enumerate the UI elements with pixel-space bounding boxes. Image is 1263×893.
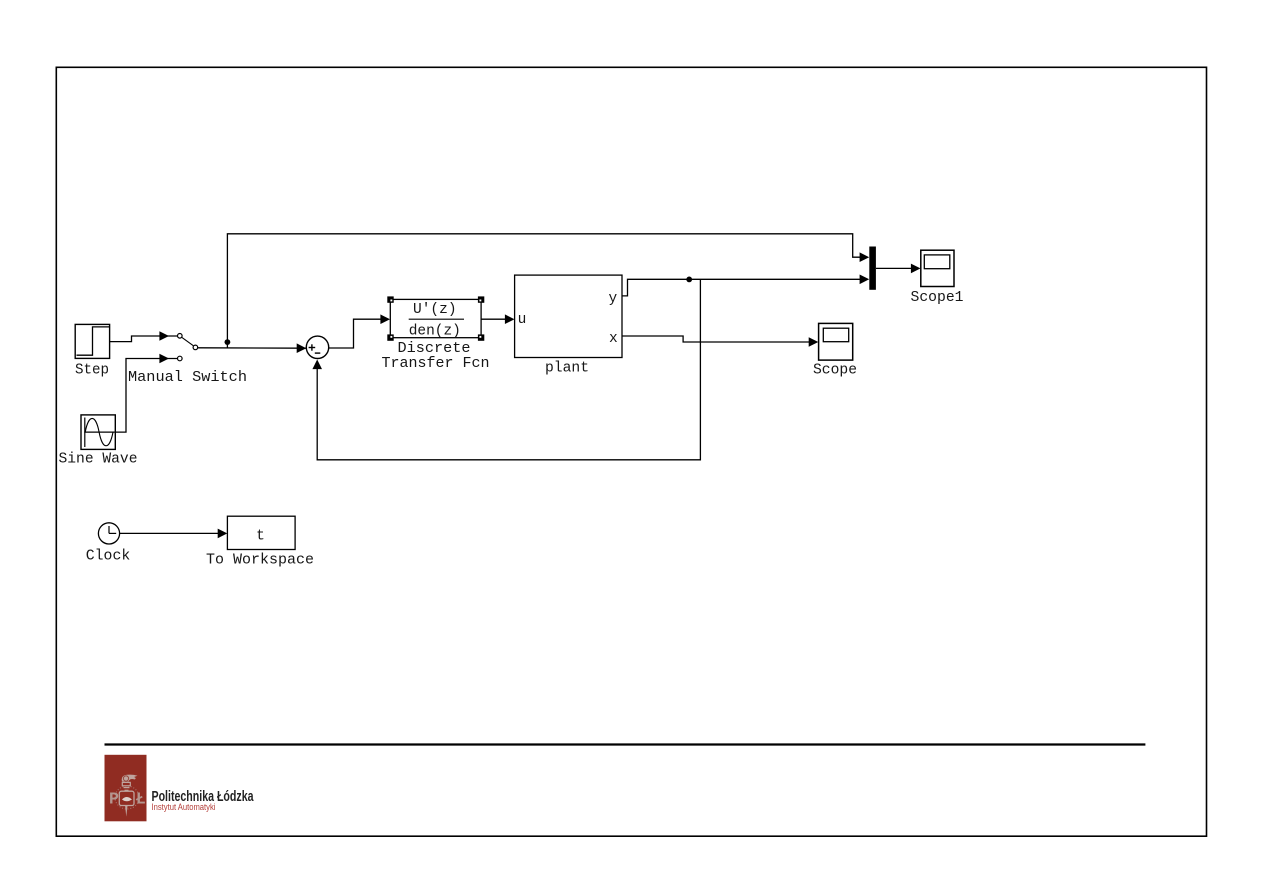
wire branch rail to Mux first input	[227, 234, 869, 348]
svg-text:u: u	[518, 312, 527, 328]
svg-text:plant: plant	[545, 361, 589, 377]
junction dot on switch output	[225, 339, 231, 345]
sum junction	[306, 336, 328, 358]
selection handle bottom-left of transfer fcn	[387, 334, 393, 340]
svg-text:Manual Switch: Manual Switch	[128, 370, 247, 386]
mux	[869, 247, 876, 290]
svg-text:x: x	[609, 331, 618, 347]
svg-text:Instytut Automatyki: Instytut Automatyki	[152, 802, 216, 812]
wire Step to Manual Switch upper contact	[110, 331, 177, 341]
scope Scope1	[911, 250, 964, 306]
logo Politechnika Lodzka	[105, 755, 147, 822]
subsystem block plant	[515, 275, 622, 377]
wire Discrete Transfer Fcn to plant	[481, 314, 514, 324]
discrete transfer fcn block	[382, 299, 490, 371]
svg-text:Transfer Fcn: Transfer Fcn	[382, 356, 490, 372]
svg-text:den(z): den(z)	[409, 324, 461, 340]
source block Step	[75, 324, 110, 378]
scope Scope	[813, 323, 857, 378]
wire Sine Wave to Manual Switch lower contact	[115, 354, 177, 432]
wire plant y to Mux second input	[622, 275, 869, 296]
selection handle top-right of transfer fcn	[478, 296, 484, 302]
clock Clock	[86, 523, 131, 565]
svg-text:Scope: Scope	[813, 362, 857, 378]
manual switch	[128, 334, 247, 387]
wire plant x to Scope	[622, 336, 818, 347]
selection handle top-left of transfer fcn	[387, 296, 393, 302]
svg-text:y: y	[609, 291, 618, 307]
wire Manual Switch to Sum	[198, 343, 306, 353]
footer separator line	[105, 743, 1146, 745]
wire Clock to To Workspace	[120, 529, 227, 539]
svg-text:t: t	[256, 528, 265, 544]
source block Sine Wave	[59, 415, 138, 468]
junction dot on y line	[686, 277, 692, 283]
svg-text:U'(z): U'(z)	[413, 302, 457, 318]
svg-text:Discrete: Discrete	[398, 341, 471, 357]
wire Sum to Discrete Transfer Fcn	[329, 314, 391, 348]
wire Mux to Scope1	[876, 264, 921, 274]
svg-text:Scope1: Scope1	[911, 290, 964, 306]
feedback wire from y line to Sum lower input	[312, 279, 700, 460]
svg-text:Ł: Ł	[136, 789, 146, 808]
svg-text:To Workspace: To Workspace	[206, 553, 314, 569]
svg-text:P: P	[109, 789, 119, 808]
selection handle bottom-right of transfer fcn	[478, 334, 484, 340]
svg-text:Clock: Clock	[86, 549, 131, 565]
svg-text:Sine Wave: Sine Wave	[59, 452, 138, 468]
svg-text:Step: Step	[75, 363, 109, 379]
to workspace block	[206, 516, 314, 569]
